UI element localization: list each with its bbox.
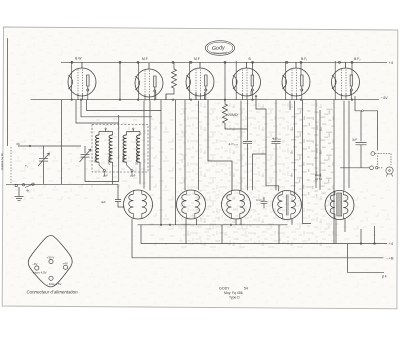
wire AF coupling run [266, 154, 279, 191]
svg-text:54: 54 [244, 287, 248, 291]
paper texture patches [6, 30, 394, 304]
coil L1b antenna secondary [109, 132, 112, 163]
wire -4V lower rail [31, 99, 380, 101]
wire V3 pins down to T2 [185, 92, 205, 190]
pin J1-4 filament [49, 276, 53, 280]
wire V2 plate to T1 [161, 94, 166, 225]
svg-text:μμF: μμF [131, 174, 136, 178]
svg-text:B.W: B.W [75, 57, 82, 61]
connector J1 power plug outline [28, 236, 72, 287]
pin J1-3 +4V [63, 261, 68, 269]
node +4 rail junctions [360, 243, 376, 245]
svg-text:4.7/₁₀₀₀: 4.7/₁₀₀₀ [229, 142, 240, 146]
resistor R2 20MOhm grid leak [223, 62, 248, 129]
capacitor C1 AVC [115, 184, 125, 207]
svg-text:− Filas 4,5V: − Filas 4,5V [47, 282, 62, 286]
label field terminal [382, 275, 387, 279]
label C5 value [256, 198, 264, 202]
coil assembly L1/L2 dashed shield box [92, 125, 148, 173]
wire antenna lead-in [6, 39, 9, 146]
label M.F [142, 57, 148, 61]
ground [15, 187, 24, 201]
label B.F1 [301, 57, 308, 61]
wire +4V top rail [61, 61, 387, 63]
switch S2 band select under L1 [99, 162, 108, 178]
svg-text:Imprimé Ny 40: Imprimé Ny 40 [0, 153, 4, 170]
wire speaker return [348, 244, 385, 273]
capacitor C4 2uF [356, 143, 367, 168]
label To [25, 164, 29, 168]
variable capacitor CV2 (oscillator) [80, 146, 92, 165]
interstage transformer T4 [273, 191, 302, 220]
resistor R1 (plate load between V2 and V3) [166, 62, 177, 99]
label C4 [352, 138, 357, 142]
wire tuned-circuit right leg [61, 100, 63, 185]
wire T3 return drop [222, 219, 241, 244]
wire decoupling branch [315, 100, 317, 188]
wire antenna to tuned circuit [17, 143, 82, 146]
label C1 value [101, 200, 106, 204]
svg-text:Connecteur d’alimentation: Connecteur d’alimentation [27, 290, 79, 295]
tube V4 (B detector) [233, 61, 261, 100]
svg-text:24 SL: 24 SL [315, 177, 323, 181]
variable capacitor CV1 [38, 146, 50, 184]
svg-text:B.F₁: B.F₁ [301, 57, 308, 61]
label C2 value [229, 142, 240, 146]
wire output grid lead [320, 100, 334, 244]
tube V3 (M.F detector) [186, 61, 214, 100]
wire padder capacitor C1 leg [113, 162, 141, 184]
wire +4 rail [141, 225, 387, 244]
svg-text:B.F₂: B.F₂ [354, 57, 361, 61]
wire V6 plate circuit [351, 91, 378, 151]
switch S1 wave-change [11, 147, 34, 193]
svg-text:+4V: +4V [63, 261, 68, 265]
svg-text:2µF: 2µF [352, 138, 357, 142]
pin J1-2 -4V [32, 262, 39, 270]
tube V5 (B.F.1 audio) [282, 61, 310, 100]
svg-text:20MΩ: 20MΩ [228, 113, 238, 117]
wire V3 plate stepped lead [208, 100, 232, 191]
wire T5 return drop [336, 219, 345, 244]
label M.F [194, 57, 200, 61]
label Moy Fq 456 [224, 291, 243, 295]
node detector junction [255, 95, 257, 97]
wire T1 left lead [125, 207, 133, 258]
IF transformer T2 [177, 190, 206, 219]
wire screen bus linking cans [138, 224, 288, 226]
svg-text:−4V: −4V [32, 262, 37, 266]
svg-text:4µF: 4µF [101, 200, 106, 204]
wire T4 return drop [279, 219, 292, 244]
wire L1 link top [99, 128, 113, 132]
wire oscillator padder branch [85, 115, 119, 182]
svg-text:→+B: →+B [385, 255, 394, 260]
label coil L2 value [121, 152, 140, 165]
wire grid-leak return [247, 100, 249, 141]
capacitor C5 tone [261, 197, 268, 208]
svg-text:+4: +4 [389, 241, 394, 246]
wire V6 pins to output transformer [344, 101, 349, 191]
wire output terminals drop [361, 226, 375, 244]
pin J1-1 +30V [47, 256, 55, 264]
label excitation [315, 173, 323, 181]
label C3 value [272, 137, 282, 141]
label B [249, 57, 252, 61]
label +4V [389, 60, 394, 65]
wire V4 stepped plate lead [251, 91, 266, 190]
tube V2 (M.F amplifier) [135, 62, 163, 101]
label filament pin [47, 282, 62, 286]
label Type D [229, 296, 240, 300]
svg-text:−micro 4,5V: −micro 4,5V [32, 271, 47, 275]
pick-up PU symbol [386, 167, 393, 177]
terminal P2 pick-up [340, 166, 383, 170]
wire V1 pins to oscillator coils [76, 100, 161, 123]
capacitor C2 grid [243, 142, 252, 191]
label coil L1 value [94, 152, 113, 165]
stamp GODY oval [205, 41, 234, 56]
svg-text:−4V: −4V [381, 95, 389, 100]
node top rail junctions [71, 61, 353, 63]
wire T2 return drop [186, 219, 197, 244]
label 20MOhm [228, 113, 238, 117]
wire V5 grid line [290, 101, 295, 195]
label -4V [381, 95, 389, 100]
coil L2b oscillator secondary [137, 132, 140, 163]
wire V4 plate feed [251, 62, 253, 75]
output transformer T5 [325, 191, 354, 220]
wire screen dropper [119, 62, 121, 99]
tube V1 (B.W changeuse) [68, 61, 96, 100]
svg-text:M.F: M.F [142, 57, 148, 61]
wire +B rail [132, 257, 384, 259]
tube V6 (B.F.2 output) [332, 61, 360, 100]
capacitor C3 coupling [272, 100, 281, 191]
switch S3 band select under L2 [127, 162, 136, 178]
label B.W [75, 57, 82, 61]
label connector caption [27, 290, 79, 295]
svg-text:4µF/₃₆₀: 4µF/₃₆₀ [272, 137, 282, 141]
wire V4 cathode down [236, 101, 241, 225]
IF transformer T3 [222, 190, 251, 219]
svg-text:4h: 4h [26, 189, 30, 193]
IF transformer T1 [124, 190, 153, 219]
wire L2 link top [127, 128, 141, 132]
svg-text:+30 V: +30 V [47, 256, 55, 260]
wire V5 plate feed [303, 100, 312, 224]
wire screen feed [174, 100, 176, 225]
svg-text:μμF: μμF [103, 174, 108, 178]
terminal P1 pick-up [371, 152, 391, 165]
node V1 pin junctions [71, 99, 353, 101]
wire earth return bus [6, 183, 118, 185]
label left margin imprint [0, 153, 4, 170]
label micro pin [32, 271, 47, 275]
label +4 [389, 241, 394, 246]
svg-text:0,1/₁₀₀: 0,1/₁₀₀ [256, 198, 264, 202]
svg-text:Type D: Type D [229, 296, 240, 300]
svg-text:Gody: Gody [212, 45, 226, 52]
svg-text:M.F: M.F [194, 57, 200, 61]
wire V5 plate feed [300, 62, 302, 75]
coil L1a antenna primary [96, 132, 99, 163]
wire PU dashed drop [377, 156, 379, 166]
wire speaker field [360, 111, 362, 142]
svg-text:+4: +4 [389, 60, 394, 65]
coil L2a oscillator primary [123, 132, 126, 163]
svg-text:β 4: β 4 [382, 275, 387, 279]
wire V2 pins down [144, 92, 156, 191]
label title GODY 54 [219, 287, 248, 291]
svg-text:GODY: GODY [219, 287, 230, 291]
node can bottoms [160, 224, 232, 226]
label B.F2 [354, 57, 361, 61]
wire V6 plate feed [351, 62, 353, 75]
svg-text:Moy. Fq 456: Moy. Fq 456 [224, 291, 243, 295]
node antenna tap [29, 145, 31, 147]
label +B [385, 255, 394, 260]
